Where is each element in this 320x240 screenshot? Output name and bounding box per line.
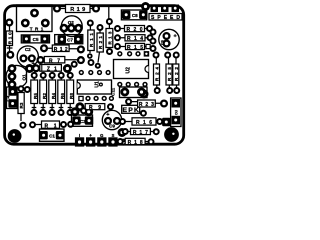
svg-text:R16: R16 [136, 120, 152, 126]
resistor R22 [173, 58, 179, 89]
svg-text:R14: R14 [127, 36, 143, 42]
capacitor C5 [21, 35, 49, 43]
svg-text:+: + [106, 112, 109, 118]
node pad above C3 [81, 108, 86, 113]
svg-text:+: + [174, 34, 177, 40]
svg-text:C7: C7 [67, 37, 73, 42]
IC U2 [114, 51, 150, 86]
resistor R1 [30, 121, 66, 129]
resistor R3 [18, 86, 24, 113]
node pad below U2 [140, 90, 149, 99]
connector OUT [171, 98, 181, 127]
svg-text:R19: R19 [70, 7, 85, 13]
svg-text:EPK: EPK [122, 107, 139, 114]
svg-text:C3: C3 [80, 119, 86, 124]
svg-text:R12: R12 [54, 47, 68, 53]
resistor R20 [115, 26, 152, 34]
node big pad near Z1 [63, 64, 72, 73]
svg-text:C8: C8 [132, 13, 138, 18]
capacitor C7 [55, 35, 83, 44]
svg-text:R22: R22 [174, 67, 179, 81]
resistor R2 [40, 73, 47, 108]
resistor R6 [58, 73, 65, 108]
svg-text:OU: OU [175, 109, 179, 115]
node pad left of SPEED [141, 2, 150, 11]
board outline border [5, 6, 184, 145]
resistor R23 [126, 99, 167, 108]
diode Z1 [33, 65, 61, 73]
node pads left of R1 [20, 114, 22, 122]
svg-text:R4: R4 [51, 93, 56, 99]
svg-text:S: S [112, 133, 115, 138]
IC U1 [77, 71, 113, 101]
svg-text:R23: R23 [139, 102, 154, 108]
node pad left of C3 [68, 122, 73, 127]
node pad [7, 52, 13, 58]
connector terminal block [75, 133, 118, 147]
svg-text:C9: C9 [109, 124, 115, 129]
svg-text:R11: R11 [89, 33, 94, 47]
resistor R4 [49, 73, 56, 108]
resistor R24 [154, 58, 160, 89]
resistor R9 [75, 102, 113, 111]
node pad right of Z1 [72, 62, 77, 67]
resistor R16 [120, 118, 171, 126]
capacitor C8 [121, 7, 147, 20]
resistor R17 [123, 128, 159, 136]
capacitor C10 below U2 [120, 87, 148, 98]
svg-text:R24: R24 [155, 67, 160, 81]
svg-text:C4: C4 [5, 95, 10, 101]
svg-text:R21: R21 [98, 36, 103, 49]
resistor R14 [115, 35, 153, 43]
svg-text:R20: R20 [127, 27, 143, 33]
node pads row [32, 110, 37, 115]
wire R10 to pad [7, 46, 13, 52]
resistor R21 [89, 25, 104, 69]
capacitor C6 [159, 29, 179, 49]
svg-text:R18: R18 [128, 140, 143, 146]
svg-text:R8: R8 [69, 93, 74, 99]
resistor R10 [6, 31, 12, 46]
capacitor C3 [72, 115, 94, 126]
svg-text:R10: R10 [7, 32, 12, 44]
node pads right of terminals [118, 128, 127, 137]
mounting hole bottom-right [164, 127, 179, 142]
wire left pad to R10 [9, 22, 11, 31]
resistor R19 [54, 5, 99, 14]
transistor TR1 [17, 5, 53, 32]
node pads row y55 [154, 53, 159, 58]
node big pad [25, 64, 34, 73]
svg-text:TR1: TR1 [30, 26, 44, 31]
svg-text:G: G [100, 133, 103, 138]
resistor R11 [87, 21, 94, 59]
transistor Q2 [61, 16, 82, 37]
resistor R8 [67, 73, 74, 108]
svg-text:R2: R2 [42, 93, 47, 99]
resistor R15 [115, 43, 150, 51]
svg-text:R17: R17 [133, 130, 148, 136]
node black pads above C3 [70, 107, 79, 116]
svg-text:I: I [79, 133, 80, 138]
svg-text:C2: C2 [25, 47, 31, 52]
svg-text:R25: R25 [167, 67, 172, 81]
resistor R13 [106, 6, 113, 54]
resistor R5 [31, 73, 38, 108]
resistor R12 [41, 45, 84, 53]
resistor R25 [166, 58, 172, 89]
mounting hole bottom-left [8, 129, 22, 143]
capacitor C4 [5, 87, 17, 109]
svg-text:R13: R13 [107, 31, 112, 44]
svg-text:R6: R6 [60, 93, 65, 99]
svg-text:C5: C5 [33, 37, 39, 42]
connector SPEED [149, 5, 182, 22]
transistor Q1 [6, 65, 27, 87]
svg-text:C1: C1 [49, 133, 55, 138]
svg-text:R15: R15 [127, 45, 143, 51]
node pads col x153 [151, 30, 156, 35]
node pad near R3 top [25, 87, 30, 92]
svg-text:U2: U2 [126, 67, 132, 74]
resistor R18 [118, 138, 154, 146]
svg-text:C6: C6 [161, 40, 165, 45]
wire stubs bottom bank [32, 108, 73, 113]
capacitor C2 [17, 46, 38, 67]
svg-text:R5: R5 [33, 93, 38, 99]
node pads row y90 [155, 88, 160, 93]
capacitor C1 [39, 129, 64, 141]
svg-text:R3: R3 [19, 102, 24, 108]
resistor R7 [38, 57, 84, 65]
svg-text:Q1: Q1 [22, 74, 27, 81]
logo EPK [122, 105, 146, 115]
node pad left [6, 20, 12, 26]
capacitor C9 [102, 110, 121, 129]
